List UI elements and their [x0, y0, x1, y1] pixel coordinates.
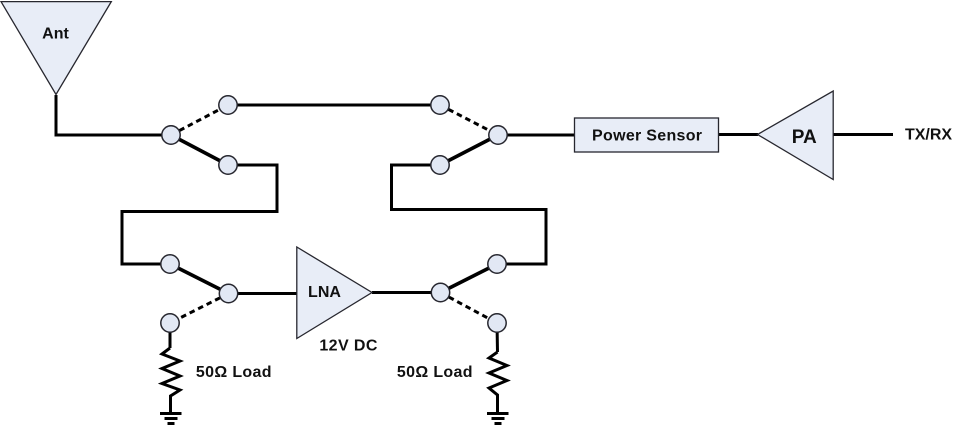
svg-text:12V DC: 12V DC	[319, 338, 377, 355]
svg-text:Power Sensor: Power Sensor	[592, 128, 702, 145]
svg-text:50Ω Load: 50Ω Load	[397, 364, 473, 381]
svg-text:LNA: LNA	[308, 284, 341, 301]
svg-text:50Ω Load: 50Ω Load	[196, 364, 272, 381]
svg-text:TX/RX: TX/RX	[905, 127, 952, 144]
svg-text:PA: PA	[792, 127, 817, 148]
svg-text:Ant: Ant	[42, 26, 69, 43]
